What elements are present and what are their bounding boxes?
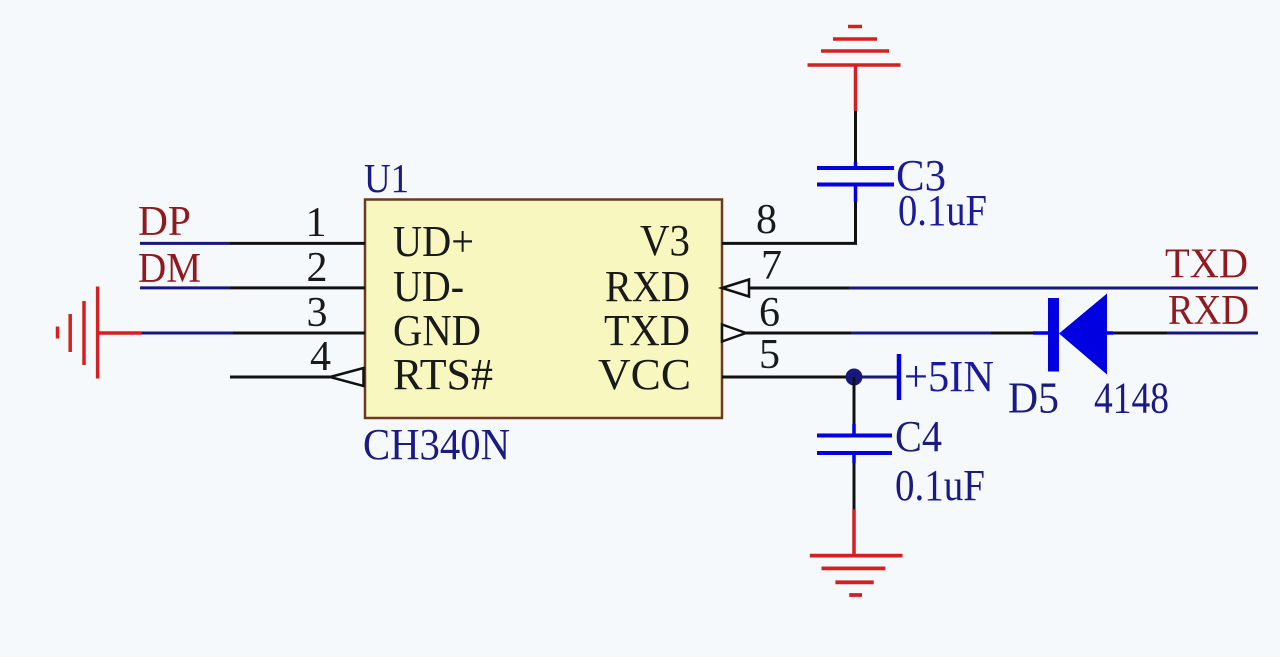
diode D5 cathode lead stub [1107, 331, 1113, 335]
wire TXD-net black segment to diode [991, 332, 1033, 335]
svg-text:7: 7 [761, 243, 782, 289]
wire pin 8 (V3) black segment [722, 202, 856, 243]
svg-text:DM: DM [138, 246, 201, 292]
svg-text:UD+: UD+ [393, 217, 474, 266]
wire DP navy segment [140, 242, 230, 245]
wire pin 5 (VCC) black segment [722, 376, 846, 379]
wire black segment after diode [1113, 332, 1167, 335]
wire pin 4 (RTS#) black segment [230, 376, 330, 379]
svg-text:UD-: UD- [393, 262, 464, 311]
capacitor C4 plates [817, 434, 892, 438]
svg-text:TXD: TXD [604, 306, 690, 355]
wire DM navy segment [140, 286, 230, 289]
pin 6 output triangle [722, 325, 746, 342]
wire VCC node to +5IN navy segment [854, 376, 897, 379]
wire RXD-net black segment from pin 7 [749, 287, 849, 290]
IC U1 body [365, 200, 722, 419]
svg-text:D5: D5 [1008, 374, 1059, 423]
svg-text:1: 1 [306, 200, 327, 246]
diode D5 anode lead stub [1033, 331, 1049, 335]
svg-text:4148: 4148 [1094, 374, 1169, 423]
svg-text:3: 3 [307, 290, 328, 336]
svg-text:C4: C4 [895, 412, 942, 461]
ground symbol top (earth) [808, 27, 901, 66]
wire TXD-net navy segment [851, 332, 991, 335]
wire VCC node down black segment [853, 377, 856, 424]
wire TXD-net black segment from pin 6 [746, 332, 851, 335]
capacitor C3 plates [817, 183, 894, 187]
diode D5 triangle [1059, 294, 1107, 375]
svg-text:8: 8 [756, 197, 777, 243]
svg-text:6: 6 [759, 290, 780, 336]
svg-text:4: 4 [310, 334, 331, 380]
wire RXD navy segment to label [1167, 332, 1258, 335]
svg-text:RTS#: RTS# [393, 350, 493, 399]
svg-text:0.1uF: 0.1uF [898, 186, 987, 235]
svg-text:RXD: RXD [605, 262, 690, 311]
+5IN port bar [897, 354, 902, 400]
wire DM black segment to pin 2 [230, 286, 365, 289]
capacitor C3 lower stub [854, 186, 858, 202]
capacitor C4 lower stub [852, 453, 856, 463]
pin 7 input triangle [722, 280, 749, 297]
diode D5 cathode bar [1048, 298, 1059, 372]
svg-text:2: 2 [307, 245, 328, 291]
wire pin3 black segment to pin 3 [233, 332, 365, 335]
svg-text:GND: GND [393, 306, 481, 355]
wire RXD-net navy segment to TXD label [849, 287, 1258, 290]
wire pin3 navy segment [141, 332, 233, 335]
ground symbol left (earth, rotated) [58, 287, 142, 379]
svg-text:DP: DP [138, 199, 191, 245]
svg-text:CH340N: CH340N [363, 420, 510, 469]
pin 4 output triangle [330, 368, 364, 386]
svg-text:TXD: TXD [1165, 242, 1248, 288]
svg-text:V3: V3 [640, 216, 690, 265]
svg-text:U1: U1 [364, 155, 409, 201]
wire C4 to ground black segment [853, 463, 856, 510]
svg-text:+5IN: +5IN [904, 352, 994, 401]
svg-text:5: 5 [759, 332, 780, 378]
svg-text:0.1uF: 0.1uF [895, 461, 985, 510]
wire C3 ground red stem [854, 65, 858, 111]
wire C3 to ground black segment [854, 111, 857, 162]
svg-text:VCC: VCC [598, 350, 691, 399]
ground symbol bottom (earth) [810, 556, 903, 595]
capacitor C3 upper stub [854, 162, 858, 168]
junction dot VCC node [846, 369, 863, 386]
wire DP black segment to pin 1 [230, 242, 365, 245]
svg-text:RXD: RXD [1168, 288, 1249, 334]
capacitor C4 upper stub [852, 424, 856, 435]
wire C4 ground red stem [852, 510, 856, 556]
